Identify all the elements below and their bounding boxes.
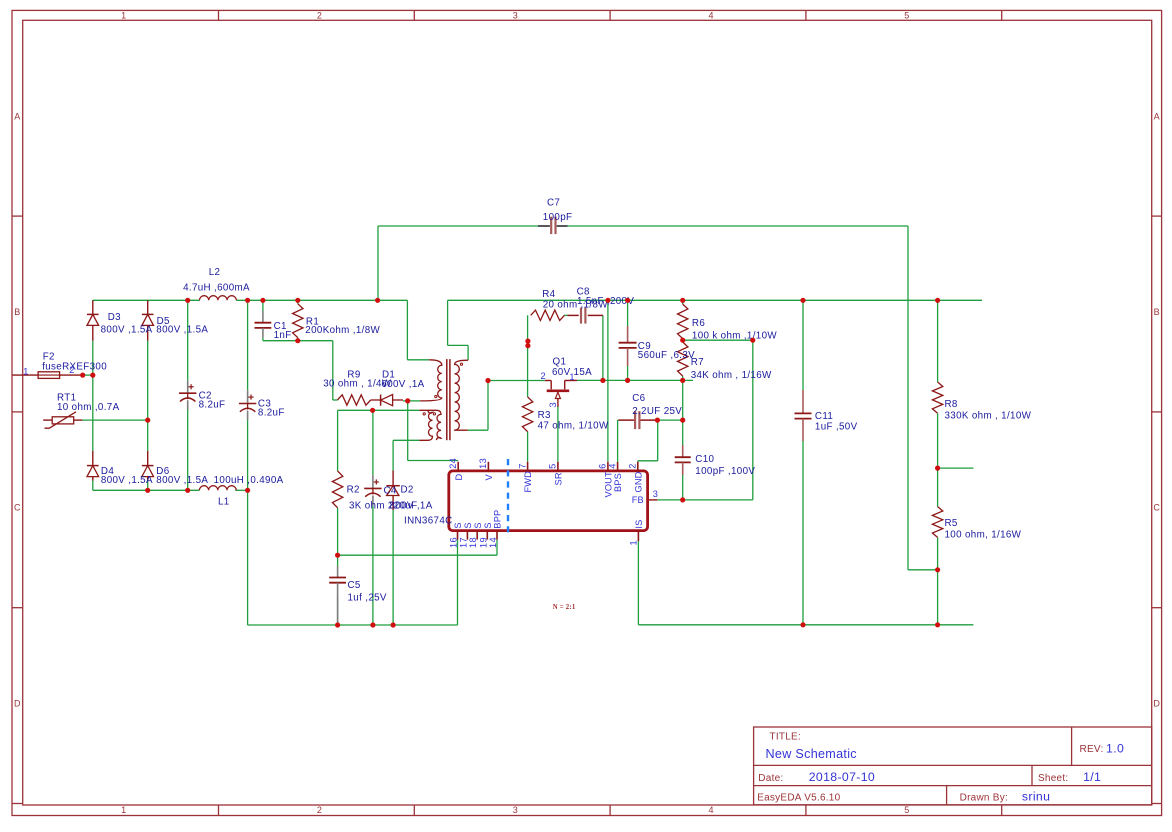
svg-text:D3: D3 bbox=[108, 312, 121, 323]
svg-text:IS: IS bbox=[634, 520, 644, 529]
svg-text:1/1: 1/1 bbox=[1083, 770, 1101, 784]
svg-text:2.2UF 25V: 2.2UF 25V bbox=[632, 406, 682, 417]
svg-text:EasyEDA V5.6.10: EasyEDA V5.6.10 bbox=[757, 793, 840, 804]
svg-text:R5: R5 bbox=[945, 518, 958, 529]
svg-text:560uF ,6.3V: 560uF ,6.3V bbox=[638, 350, 695, 361]
svg-text:SR: SR bbox=[554, 472, 564, 485]
svg-text:5: 5 bbox=[904, 11, 909, 21]
svg-text:2018-07-10: 2018-07-10 bbox=[809, 770, 875, 784]
svg-text:Date:: Date: bbox=[758, 773, 783, 784]
svg-text:100 k ohm ,1/10W: 100 k ohm ,1/10W bbox=[692, 331, 778, 342]
svg-text:TITLE:: TITLE: bbox=[770, 732, 802, 743]
svg-text:1: 1 bbox=[23, 367, 28, 377]
svg-text:800V ,1A: 800V ,1A bbox=[390, 501, 433, 512]
svg-text:R6: R6 bbox=[692, 318, 705, 329]
svg-text:1uF ,50V: 1uF ,50V bbox=[815, 422, 858, 433]
svg-text:100pF ,100V: 100pF ,100V bbox=[695, 466, 755, 477]
svg-text:18: 18 bbox=[468, 537, 478, 548]
svg-text:C5: C5 bbox=[348, 580, 361, 591]
svg-text:4: 4 bbox=[607, 463, 617, 468]
svg-text:200Kohm ,1/8W: 200Kohm ,1/8W bbox=[305, 325, 380, 336]
svg-text:34K ohm , 1/16W: 34K ohm , 1/16W bbox=[691, 370, 772, 381]
svg-text:Drawn By:: Drawn By: bbox=[960, 793, 1008, 804]
svg-text:B: B bbox=[14, 307, 20, 317]
svg-text:2: 2 bbox=[317, 11, 322, 21]
svg-text:100 ohm, 1/16W: 100 ohm, 1/16W bbox=[945, 530, 1022, 541]
svg-text:C11: C11 bbox=[815, 411, 833, 422]
svg-text:8.2uF: 8.2uF bbox=[258, 408, 285, 419]
svg-text:4: 4 bbox=[708, 11, 713, 21]
svg-text:C10: C10 bbox=[695, 454, 714, 465]
svg-text:srinu: srinu bbox=[1022, 790, 1050, 804]
svg-text:D2: D2 bbox=[401, 484, 414, 495]
svg-text:3: 3 bbox=[653, 489, 658, 499]
svg-text:S: S bbox=[473, 522, 483, 528]
svg-text:14: 14 bbox=[488, 537, 498, 548]
svg-text:1: 1 bbox=[628, 540, 638, 545]
svg-text:S: S bbox=[483, 522, 493, 528]
svg-text:R8: R8 bbox=[945, 399, 958, 410]
svg-text:13: 13 bbox=[478, 458, 488, 469]
svg-text:V: V bbox=[484, 474, 494, 481]
svg-text:INN3674C: INN3674C bbox=[404, 515, 453, 526]
svg-text:1uf ,25V: 1uf ,25V bbox=[348, 592, 387, 603]
svg-text:3: 3 bbox=[513, 805, 518, 815]
svg-text:D: D bbox=[1153, 698, 1160, 708]
svg-text:R2: R2 bbox=[347, 484, 360, 495]
svg-text:24: 24 bbox=[448, 458, 458, 469]
svg-text:New Schematic: New Schematic bbox=[766, 747, 857, 761]
svg-text:3: 3 bbox=[548, 402, 558, 407]
svg-text:A: A bbox=[1154, 112, 1160, 122]
svg-text:10 ohm ,0.7A: 10 ohm ,0.7A bbox=[57, 402, 120, 413]
svg-text:1.0: 1.0 bbox=[1106, 742, 1124, 756]
svg-text:S: S bbox=[463, 522, 473, 528]
svg-text:2: 2 bbox=[628, 463, 638, 468]
svg-text:4: 4 bbox=[708, 805, 713, 815]
svg-text:N = 2:1: N = 2:1 bbox=[553, 604, 576, 611]
svg-text:BPP: BPP bbox=[493, 510, 503, 529]
svg-text:REV:: REV: bbox=[1080, 744, 1104, 755]
svg-text:47 ohm, 1/10W: 47 ohm, 1/10W bbox=[538, 421, 609, 432]
svg-text:2: 2 bbox=[541, 371, 546, 381]
svg-text:4.7uH ,600mA: 4.7uH ,600mA bbox=[183, 283, 250, 294]
svg-text:2: 2 bbox=[69, 365, 74, 375]
svg-text:800V ,1.5A: 800V ,1.5A bbox=[156, 475, 208, 486]
svg-text:600V ,1A: 600V ,1A bbox=[381, 379, 424, 390]
svg-text:8.2uF: 8.2uF bbox=[199, 399, 226, 410]
svg-text:5: 5 bbox=[904, 805, 909, 815]
svg-text:Q1: Q1 bbox=[553, 356, 567, 367]
svg-text:C: C bbox=[1153, 503, 1160, 513]
svg-text:A: A bbox=[14, 112, 20, 122]
svg-text:1: 1 bbox=[121, 805, 126, 815]
svg-text:BPS: BPS bbox=[613, 473, 623, 492]
svg-text:3: 3 bbox=[513, 11, 518, 21]
svg-text:17: 17 bbox=[458, 537, 468, 548]
svg-text:1nF: 1nF bbox=[274, 330, 292, 341]
svg-text:1: 1 bbox=[121, 11, 126, 21]
svg-text:VOUT: VOUT bbox=[604, 471, 614, 498]
svg-text:1: 1 bbox=[569, 372, 574, 382]
svg-text:19: 19 bbox=[478, 537, 488, 548]
svg-text:2: 2 bbox=[317, 805, 322, 815]
svg-text:6: 6 bbox=[598, 463, 608, 468]
svg-text:C: C bbox=[14, 503, 21, 513]
svg-text:7: 7 bbox=[517, 463, 527, 468]
svg-text:R4: R4 bbox=[542, 289, 555, 300]
svg-text:16: 16 bbox=[449, 537, 459, 548]
svg-text:100uH ,0.490A: 100uH ,0.490A bbox=[214, 475, 284, 486]
svg-text:100pF: 100pF bbox=[543, 212, 573, 223]
svg-text:B: B bbox=[1154, 307, 1160, 317]
svg-text:D: D bbox=[14, 698, 21, 708]
svg-text:C4: C4 bbox=[384, 486, 397, 497]
svg-text:C6: C6 bbox=[632, 393, 645, 404]
svg-text:R7: R7 bbox=[691, 357, 704, 368]
svg-text:FWD: FWD bbox=[523, 471, 533, 493]
svg-text:FB: FB bbox=[632, 495, 644, 505]
svg-text:GND: GND bbox=[633, 471, 643, 492]
svg-text:D: D bbox=[454, 474, 464, 481]
svg-text:330K ohm , 1/10W: 330K ohm , 1/10W bbox=[945, 410, 1032, 421]
svg-text:S: S bbox=[453, 522, 463, 528]
svg-text:800V ,1.5A: 800V ,1.5A bbox=[101, 475, 153, 486]
svg-text:5: 5 bbox=[548, 463, 558, 468]
svg-text:800V ,1.5A: 800V ,1.5A bbox=[101, 325, 153, 336]
svg-text:R3: R3 bbox=[538, 410, 551, 421]
svg-text:C7: C7 bbox=[547, 198, 560, 209]
svg-text:L2: L2 bbox=[209, 267, 221, 278]
svg-text:800V ,1.5A: 800V ,1.5A bbox=[156, 325, 208, 336]
svg-text:Sheet:: Sheet: bbox=[1038, 773, 1068, 784]
svg-text:L1: L1 bbox=[218, 497, 230, 508]
